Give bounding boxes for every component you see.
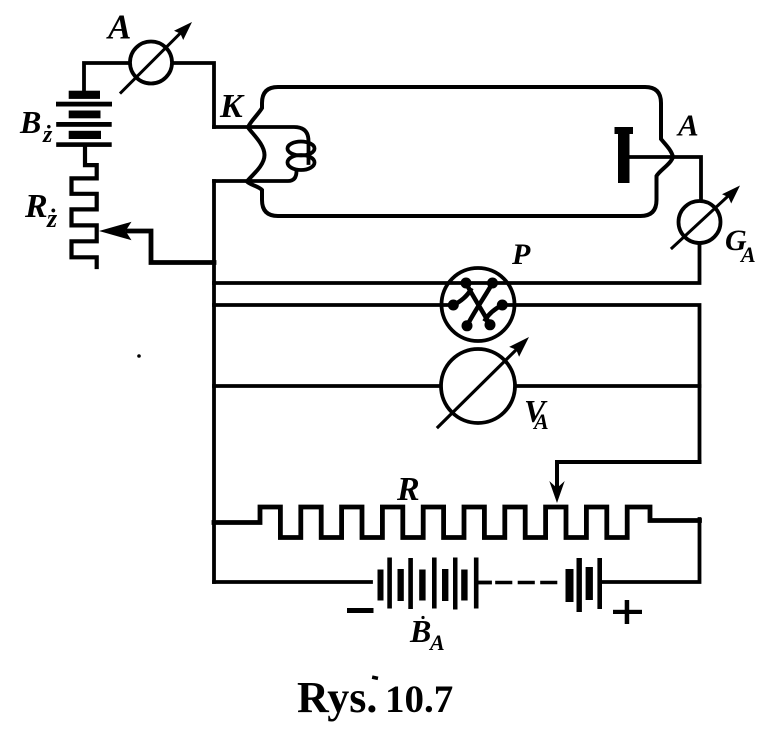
potentiometer R: [214, 507, 700, 538]
anode plate: [615, 127, 634, 183]
cathode bottom lead wire: [214, 171, 297, 181]
commutator P circle: [442, 268, 515, 341]
commutator P contacts: [448, 278, 508, 332]
ink speck 2: [372, 675, 379, 680]
rheostat wiper arrow and wire: [99, 222, 132, 240]
wire P right down to wiper feed: [504, 305, 700, 462]
commutator P cross links: [466, 283, 490, 325]
svg-text:A: A: [676, 108, 699, 143]
wire bottom left: [214, 580, 371, 584]
left vertical main wire: [212, 181, 216, 582]
svg-text:K: K: [219, 88, 245, 125]
battery BA dashed continuation: [497, 581, 558, 585]
svg-text:ż: ż: [42, 122, 53, 148]
svg-text:R: R: [24, 188, 48, 225]
ink speck: [137, 354, 141, 358]
heater loop 2: [288, 155, 315, 170]
heater loop 1: [288, 142, 315, 156]
ink speck 3: [421, 616, 424, 619]
ammeter A: [121, 22, 192, 93]
voltmeter VA: [438, 337, 529, 427]
svg-text:R: R: [396, 471, 420, 508]
svg-text:Rys.: Rys.: [297, 673, 377, 722]
svg-text:A: A: [106, 8, 131, 47]
svg-text:A: A: [532, 409, 549, 434]
battery BA left group: [378, 558, 479, 610]
svg-text:P: P: [511, 238, 531, 271]
anode lead: [630, 157, 701, 201]
battery BA right group: [566, 558, 603, 612]
svg-text:B: B: [409, 613, 431, 649]
wire anode return through P: [214, 243, 700, 283]
plus sign: [613, 600, 642, 624]
battery Bż: [56, 91, 112, 147]
svg-text:A: A: [739, 242, 756, 267]
wire P left: [214, 303, 451, 307]
battery BA mid stub wire: [479, 581, 490, 585]
galvanometer GA: [672, 186, 740, 249]
wire filament top: battery to ammeter to cathode column: [84, 63, 214, 127]
minus sign: [347, 608, 374, 613]
wire to potentiometer wiper arrow: [557, 462, 700, 488]
tube envelope: [247, 87, 673, 216]
svg-text:B: B: [19, 104, 41, 140]
cathode top lead wire: [214, 127, 309, 163]
rheostat Rż: [72, 146, 97, 267]
svg-text:A: A: [428, 630, 445, 655]
svg-text:ż: ż: [46, 204, 58, 233]
voltmeter VA wire: [214, 384, 700, 388]
wire right vertical to bottom: [603, 519, 700, 582]
svg-text:10.7: 10.7: [385, 678, 453, 721]
